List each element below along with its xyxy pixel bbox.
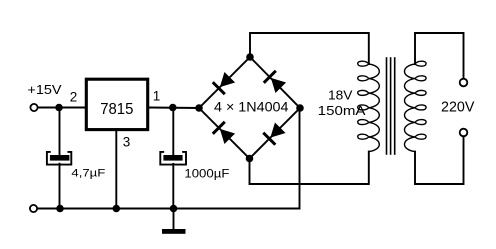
capacitor C2 1000uF top plate: [163, 155, 182, 161]
ground stub: [173, 209, 175, 230]
svg-text:2: 2: [70, 90, 78, 105]
terminal J3 (220V top): [460, 79, 468, 87]
svg-text:+15V: +15V: [27, 82, 62, 97]
svg-text:7815: 7815: [100, 101, 133, 118]
node C (junction rail / C1): [56, 205, 64, 213]
wire bottom rail: [38, 208, 300, 210]
node R (bridge right vertex): [296, 104, 304, 112]
wire secondary top to terminal J3: [415, 33, 464, 79]
svg-text:4 × 1N4004: 4 × 1N4004: [214, 99, 289, 115]
diode D3 (left-bottom edge): [213, 122, 235, 144]
capacitor C2 cup (bottom plate): [160, 152, 186, 165]
diode D4 (bottom-right edge): [264, 122, 286, 144]
capacitor C1 4,7uF top plate: [50, 155, 70, 161]
node T (bridge top vertex): [246, 53, 254, 61]
wire node B down to C2: [172, 108, 174, 155]
transformer secondary winding L2: [405, 61, 427, 151]
bridge edge wire L-B: [199, 108, 250, 159]
node Bm (bridge bottom vertex): [246, 155, 254, 163]
svg-text:150mA: 150mA: [318, 103, 366, 118]
node E (junction rail / C2 / ground): [170, 205, 178, 213]
node D (junction rail / pin3): [113, 205, 121, 213]
diode D2 (top-right edge): [264, 71, 286, 93]
wire U1 pin1 to bridge left vertex: [149, 107, 199, 110]
bridge edge wire B-R: [250, 108, 301, 159]
transformer core: [386, 58, 388, 154]
diode D1 (left-top edge): [213, 72, 235, 94]
wire C1 to bottom rail: [59, 164, 61, 209]
terminal J2 (0V input): [30, 205, 37, 212]
svg-text:220V: 220V: [441, 100, 475, 116]
wire node A down to C1: [59, 108, 61, 155]
ground: [162, 229, 186, 234]
svg-text:1: 1: [153, 89, 161, 104]
wire terminal J4 to secondary bottom: [415, 136, 464, 184]
wire right vertex to bottom rail: [299, 108, 301, 209]
wire J1 to U1 pin2: [38, 107, 86, 109]
wire C2 to bottom rail: [172, 164, 174, 209]
wire U1 pin3 to bottom rail: [115, 131, 117, 209]
wire top vertex to top rail: [250, 33, 369, 64]
bridge edge wire L-T: [199, 57, 250, 108]
svg-text:4,7µF: 4,7µF: [71, 167, 105, 179]
regulator U1 7815 box: [86, 79, 147, 129]
node A (junction +15V / C1): [55, 104, 63, 112]
node L (bridge left vertex, + output): [195, 104, 203, 112]
terminal J4 (220V bottom): [460, 129, 468, 137]
bridge edge wire T-R: [250, 57, 300, 108]
svg-text:3: 3: [123, 135, 131, 150]
node B (junction pin1 / C2): [169, 104, 177, 112]
svg-text:18V: 18V: [328, 87, 353, 102]
transformer primary winding L1: [358, 61, 380, 151]
wire bottom vertex to primary bottom: [250, 152, 369, 184]
terminal J1 (+15V input): [30, 104, 37, 111]
capacitor C1 cup (bottom plate): [47, 152, 71, 165]
svg-text:1000µF: 1000µF: [184, 168, 229, 180]
